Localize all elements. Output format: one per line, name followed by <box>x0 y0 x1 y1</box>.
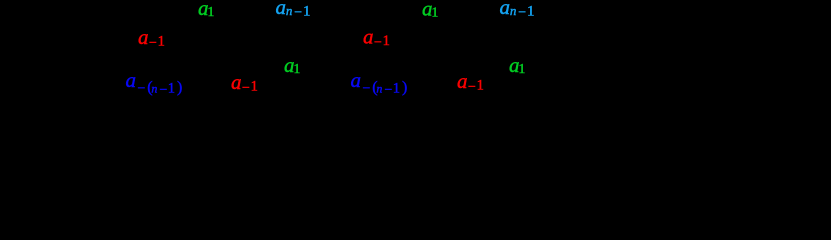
svg-text:n: n <box>151 82 157 96</box>
svg-text:a: a <box>276 0 287 19</box>
entry a_1 (green) c5 <box>284 53 300 77</box>
svg-text:a: a <box>363 25 374 49</box>
svg-text:n: n <box>376 82 382 96</box>
svg-text:−: − <box>374 36 382 51</box>
svg-text:a: a <box>138 25 149 49</box>
svg-text:1: 1 <box>431 6 438 21</box>
svg-text:n: n <box>510 3 517 18</box>
svg-text:−: − <box>160 83 168 98</box>
svg-text:): ) <box>402 79 407 96</box>
entry a_{-1} (red) c6 <box>231 70 258 96</box>
entry a_1 (green) c9 <box>422 0 438 21</box>
svg-text:−: − <box>468 80 476 95</box>
entry a_{-1} (red) c7 <box>363 25 390 51</box>
svg-text:−: − <box>363 82 371 97</box>
svg-text:1: 1 <box>251 79 258 95</box>
svg-text:1: 1 <box>293 62 300 77</box>
svg-text:−: − <box>385 83 393 98</box>
svg-text:a: a <box>231 70 242 94</box>
svg-text:n: n <box>286 3 293 18</box>
entry a_{n-1} (cyan) c10 <box>500 0 535 21</box>
svg-text:−: − <box>138 82 146 97</box>
entry a_1 (green) c11 <box>509 53 525 77</box>
svg-text:1: 1 <box>207 5 214 20</box>
entry a_{-1} (red) c12 <box>457 69 484 95</box>
svg-text:1: 1 <box>527 4 535 20</box>
svg-text:1: 1 <box>303 4 311 20</box>
entry a_{-(n-1)} (blue) c4 <box>126 68 183 98</box>
svg-text:1: 1 <box>393 81 400 97</box>
svg-text:a: a <box>126 68 137 92</box>
svg-text:a: a <box>500 0 511 19</box>
svg-text:): ) <box>177 79 182 96</box>
svg-text:1: 1 <box>383 33 390 49</box>
entry a_{-(n-1)} (blue) c8 <box>351 68 408 98</box>
svg-text:−: − <box>149 36 157 51</box>
svg-text:a: a <box>457 69 468 93</box>
svg-text:a: a <box>351 68 362 92</box>
entry a_1 (green) c1 <box>198 0 214 20</box>
svg-text:−: − <box>518 6 526 21</box>
svg-text:1: 1 <box>158 34 165 50</box>
svg-text:1: 1 <box>477 78 484 94</box>
svg-text:−: − <box>242 81 250 96</box>
entry a_{n-1} (cyan) c2 <box>276 0 311 21</box>
svg-text:−: − <box>294 6 302 21</box>
svg-text:1: 1 <box>168 81 175 97</box>
svg-text:1: 1 <box>518 62 525 77</box>
entry a_{-1} (red) c3 <box>138 25 165 51</box>
